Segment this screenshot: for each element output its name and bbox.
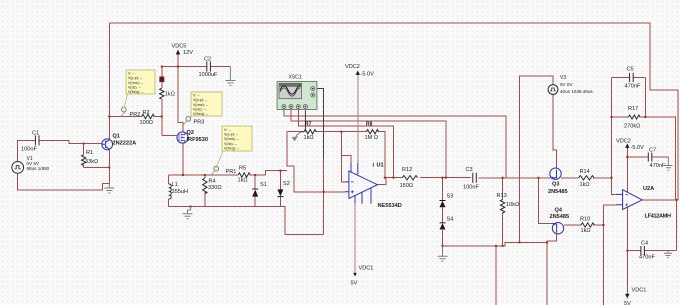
wire R7 R8 line [287,132,386,178]
wire Q4 gate feed [538,178,552,224]
svg-text:2N5485: 2N5485 [548,189,568,195]
wire Q3 to R14 [561,177,579,179]
wire V1 to C1 [18,140,36,161]
svg-text:1kΩ: 1kΩ [238,178,248,184]
wire V3 loop [520,76,554,242]
svg-text:5V 0V: 5V 0V [560,82,573,87]
wire S2 leads [279,171,281,207]
VDC1 arrow center [353,273,357,277]
wire S1 leads [254,175,256,207]
wire Q2 source [182,144,184,176]
diode S1 [252,190,258,197]
svg-text:R10: R10 [580,217,590,223]
probe note box 1 [124,70,155,108]
capacitor C1 [35,135,39,145]
wire S3 leads [442,178,444,246]
svg-text:R2: R2 [143,110,150,116]
svg-text:1kΩ: 1kΩ [581,228,591,234]
wire R12 to C3 [420,177,471,179]
svg-text:1M Ω: 1M Ω [365,135,379,141]
wire L1 leads [168,175,170,207]
svg-text:S4: S4 [447,217,454,223]
probe note box 2 [189,92,222,118]
resistor R5 [238,173,250,177]
svg-text:R4: R4 [209,179,216,185]
svg-text:PR1: PR1 [226,169,237,175]
svg-text:R17: R17 [628,106,638,112]
op-amp U1 [345,163,378,204]
svg-text:40us 1038.46us: 40us 1038.46us [560,89,593,94]
svg-text:R13: R13 [497,193,507,199]
wire R1 to emitter node [84,167,110,169]
svg-text:5V: 5V [351,281,358,287]
svg-text:U2A: U2A [643,186,654,192]
transistor Q1 [102,139,113,150]
wire scope A terminal [284,110,506,178]
op-amp U2A [616,190,643,210]
wire Q4 source [547,234,557,241]
resistor R12 [402,176,417,180]
svg-text:VDC1: VDC1 [359,266,374,272]
wire R13 column [502,178,504,246]
diode S2 [277,189,283,196]
wire Q2 drain feed [178,67,183,133]
capacitor C7 [648,153,652,162]
svg-text:R14: R14 [580,169,590,175]
svg-text:1kΩ: 1kΩ [304,135,314,141]
svg-text:V(p-p): --: V(p-p): -- [128,76,143,80]
svg-text:V(freq): --: V(freq): -- [193,112,209,116]
resistor R8 [366,130,378,134]
svg-text:IRF9530: IRF9530 [187,137,208,143]
svg-text:C1: C1 [32,131,39,137]
svg-text:2N5485: 2N5485 [550,214,570,220]
svg-text:88us 1/650: 88us 1/650 [27,166,50,171]
svg-text:470nF: 470nF [650,163,666,169]
svg-text:1000uF: 1000uF [199,72,219,78]
wire Q4 drain to R15 [564,224,581,226]
svg-text:S2: S2 [283,181,290,187]
wire B net vertical [162,67,177,136]
resistor R7 [304,130,316,134]
oscilloscope XSC1 [277,82,317,110]
svg-text:R8: R8 [366,122,373,128]
wire C7 line [627,156,668,158]
svg-text:XSC1: XSC1 [289,75,302,81]
svg-text:V(rms): --: V(rms): -- [128,81,144,85]
resistor R2 [142,114,155,118]
svg-text:330Ω: 330Ω [208,185,222,191]
wire S4 ground rail [443,242,548,246]
svg-text:V: --: V: -- [193,94,200,98]
resistor R4 [203,178,207,194]
wire R7 node down jog [287,132,345,192]
wire collector feed [108,23,110,140]
probe PR2 [121,107,126,116]
wire C1 to Q1 base [39,140,102,143]
wire V3 to Q3 drain [553,94,557,168]
wire scope B terminal [291,110,446,178]
wire V1 bottom loop [18,173,110,190]
svg-text:V(p-p): --: V(p-p): -- [193,98,208,102]
svg-text:33kΩ: 33kΩ [85,159,98,165]
svg-text:V(freq): --: V(freq): -- [224,147,240,151]
svg-text:-5.0V: -5.0V [361,72,375,78]
svg-text:S1: S1 [260,182,267,188]
wire VDC5 stem [177,55,179,67]
ground below S4 [438,246,448,261]
wire C6 line [627,250,676,252]
svg-text:R12: R12 [402,167,412,173]
svg-text:355uH: 355uH [172,189,188,195]
wire U2A bottom pin to VDC1 [626,207,628,293]
svg-text:1kΩ: 1kΩ [580,182,590,188]
wire U2A output [642,200,677,251]
svg-text:5V: 5V [624,301,631,305]
svg-text:12V: 12V [183,50,193,56]
svg-text:V(dc): --: V(dc): -- [128,85,142,89]
source V3 [548,85,558,95]
svg-text:100Ω: 100Ω [140,120,154,126]
svg-text:470nF: 470nF [625,84,641,90]
svg-text:C3: C3 [466,167,473,173]
probe note box 3 [216,126,252,169]
svg-text:V(freq): --: V(freq): -- [128,90,144,94]
svg-text:Q4: Q4 [555,208,563,214]
wire C3 to Q3 gate [478,177,550,179]
diode S3 [440,201,446,207]
resistor R17 [628,115,640,119]
diode S4 [440,223,446,229]
ground right of C6 [664,251,672,258]
text labels blue [113,130,672,220]
transistor Q2 [177,132,188,143]
ground right of C7 [664,157,672,170]
svg-text:VDC2: VDC2 [616,139,631,145]
wire box top rail [169,174,266,176]
wire S2 jog [266,171,288,175]
svg-text:C2: C2 [204,57,211,63]
wire R15 to U2A plus [593,205,616,225]
probe PR1 [212,166,219,174]
ground at Q1 emitter [104,183,114,193]
black R7 lead [301,110,306,132]
svg-text:V(dc): --: V(dc): -- [193,107,207,111]
black passive components [12,62,652,256]
svg-text:150Ω: 150Ω [400,183,414,189]
wire scope C terminal [298,110,393,178]
svg-text:R7: R7 [305,122,312,128]
svg-text:270kΩ: 270kΩ [624,124,640,130]
wire Q1 emitter [108,150,110,184]
grounds grey [104,67,672,261]
svg-text:VDC5: VDC5 [172,44,187,50]
svg-text:B: B [160,77,164,83]
wire R17 node to main line [611,117,613,178]
wire VDC2b to U2A top [626,147,628,193]
wire VDC2 to U1 [357,74,359,164]
capacitor C3 [473,173,477,183]
svg-text:V(rms): --: V(rms): -- [224,137,240,141]
svg-text:LF412AMH: LF412AMH [645,214,672,220]
svg-text:V(dc): --: V(dc): -- [224,142,238,146]
wire limiter bottom rail [169,207,324,235]
resistor R15 [581,223,594,227]
wire R4 leads [204,175,206,207]
wire bottom vertical a [495,246,497,305]
svg-text:VDC1: VDC1 [632,288,647,294]
inductor L1 [169,184,172,199]
wire top rail [109,23,678,200]
wire C5 top line [612,76,646,78]
diodes black [252,189,445,230]
svg-text:V: --: V: -- [128,72,135,76]
capacitor C5 [630,73,634,82]
VDC5 arrow [176,50,180,55]
svg-text:V: --: V: -- [224,128,231,132]
svg-text:S3: S3 [447,194,454,200]
wire bottom vertical c [603,225,605,305]
svg-text:PR2: PR2 [130,112,141,118]
svg-text:100nF: 100nF [21,147,37,153]
wire R1 leads [83,144,85,168]
source V1 [12,162,24,174]
svg-text:R1: R1 [86,150,93,156]
resistor R14 [579,176,594,180]
svg-text:Q3: Q3 [552,182,559,188]
svg-text:R5: R5 [239,166,246,172]
grey probe arrow near R7 [296,132,301,136]
svg-text:Q2: Q2 [187,130,194,136]
VDC2 arrow right [625,144,629,148]
svg-text:Q1: Q1 [113,134,120,140]
wire C5 R17 loop verticals [612,77,646,117]
svg-text:100nF: 100nF [463,185,479,191]
resistor R1 [82,155,86,166]
net label B [159,77,164,83]
transistor Q4 [552,223,563,234]
svg-text:NE5534D: NE5534D [378,203,402,209]
svg-text:470nF: 470nF [639,255,655,261]
svg-text:C5: C5 [627,67,634,73]
svg-text:-5.0V: -5.0V [631,145,645,151]
svg-text:L1: L1 [172,182,178,188]
wire U1 VDC1 pin [354,204,356,275]
VDC1 arrow bottom right [625,294,629,299]
transistor Q3 [550,168,561,179]
svg-text:PR3: PR3 [194,120,205,126]
svg-text:C4: C4 [641,241,648,247]
wire U1 output [377,178,402,185]
wire R14 to U2A minus [593,178,616,195]
capacitor C6 [641,246,645,255]
wire scope right terminal [323,158,325,235]
resistor R3 1k [160,88,164,99]
svg-text:V(p-p): --: V(p-p): -- [224,133,239,137]
ground near C2 [225,67,235,86]
wire R2 net [109,116,162,118]
VDC2 arrow top [356,71,360,75]
wire R7R8 junction to minus input [341,132,351,182]
text labels dark red [305,122,373,128]
svg-text:VDC2: VDC2 [345,64,360,70]
capacitor C2 [207,62,211,72]
svg-text:10kΩ: 10kΩ [506,202,519,208]
resistor R13 [500,199,504,213]
svg-text:V(rms): --: V(rms): -- [193,103,209,107]
svg-text:U1: U1 [377,163,384,169]
svg-text:2N2222A: 2N2222A [113,141,137,147]
svg-text:C7: C7 [649,148,656,154]
wire VDC5 rail to C2 [162,66,231,68]
svg-text:V3: V3 [560,75,566,81]
svg-text:1kΩ: 1kΩ [165,92,175,98]
wire bottom vertical b [546,241,548,305]
ground below L1 rail [183,207,193,219]
probe PR3 [183,116,191,125]
wire R17 line [612,117,676,200]
